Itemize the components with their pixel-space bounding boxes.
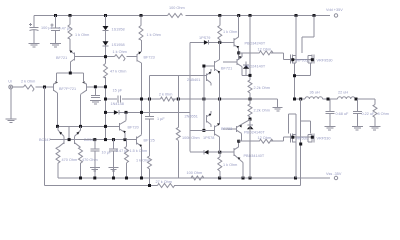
node dots VAS column: [202, 65, 205, 68]
svg-text:VRF530: VRF530: [317, 136, 331, 140]
node dot Q4 base-collector: [237, 140, 240, 143]
svg-text:1S1958: 1S1958: [112, 43, 125, 47]
svg-text:12 Ohm: 12 Ohm: [258, 136, 272, 140]
ground (mid bus drop x277.7): [273, 107, 283, 111]
wire base bus y139.6: [50, 139, 136, 141]
capacitor (base bypass x95.4): [91, 88, 100, 98]
wire bottom rail Vss y178: [58, 177, 330, 179]
resistor 1 k Ohm (x219.8 from rail): [219, 16, 221, 43]
svg-text:BF725: BF725: [144, 139, 155, 143]
wire right base of pair1: [87, 86, 106, 88]
capacitor 0.22 uF (output): [353, 99, 362, 126]
diode (B-E, lower, apex up): [247, 124, 253, 126]
svg-text:1PS79: 1PS79: [199, 36, 210, 40]
resistor 47 k Ohm (x105.5): [105, 58, 107, 140]
svg-text:2N5551: 2N5551: [185, 115, 198, 119]
resistor 12 Ohm (upper): [259, 51, 273, 55]
resistor 100k Ohm (x178.3 to rail): [177, 99, 179, 127]
node dot (bias node lower): [218, 151, 221, 154]
svg-text:BF723: BF723: [144, 56, 155, 60]
node dots on top rail: [54, 14, 57, 17]
wire feedback y185.5: [45, 87, 301, 186]
node dot input base: [43, 86, 46, 89]
svg-text:8 Ohm: 8 Ohm: [378, 112, 389, 116]
wire output rail y99: [295, 98, 376, 100]
node dots bottom rail: [79, 177, 82, 180]
wire emitter tie (diff pair 1): [57, 72, 84, 82]
node dot Q3 emitter: [237, 51, 240, 54]
resistor 2 k Ohm (mid bus): [161, 97, 175, 101]
wire bias chain x250: [249, 16, 251, 81]
transistor BC547 (right, mirror): [75, 126, 81, 144]
transistor Q3 PBD34240T: [233, 38, 235, 46]
wire upper gate drive y52.9: [239, 53, 312, 60]
polarity mark C2: [51, 24, 54, 27]
ground (under C1): [29, 43, 40, 47]
wire collector bus y126.4: [58, 125, 120, 127]
wire lower diode branch y152.2: [190, 151, 234, 153]
node dots output rail: [293, 98, 296, 101]
node dot feedback: [148, 184, 151, 187]
terminal Vss -35V: [334, 176, 337, 179]
svg-text:1S1958: 1S1958: [112, 28, 125, 32]
wire upper diode branch y42.4: [190, 42, 234, 151]
wire top supply rail Vdd: [34, 15, 330, 17]
resistor 1.5 k Ohm (x126.5): [126, 140, 128, 147]
node dots y126.4: [56, 125, 59, 128]
svg-text:0.22 uF: 0.22 uF: [362, 112, 376, 116]
svg-text:22 uH: 22 uH: [338, 91, 348, 95]
svg-text:PBD34240T: PBD34240T: [245, 42, 266, 46]
resistor 1 k Ohm (x149.5, to feedback): [148, 156, 152, 169]
inductor 22 uH: [338, 97, 356, 99]
svg-text:1PS78: 1PS78: [203, 136, 214, 140]
svg-text:1.5 k Ohm: 1.5 k Ohm: [130, 149, 148, 153]
transistor QA lower (VAS): [190, 125, 215, 135]
resistor R 1k Ohm (x70): [69, 16, 71, 52]
svg-text:2 k Ohm: 2 k Ohm: [21, 80, 35, 84]
inductor 36 uH: [305, 97, 323, 99]
diode D2 1S1958: [103, 41, 109, 45]
node dot (diode chain / base bus): [104, 55, 107, 58]
diode 1N4148 (series in bus2): [114, 110, 119, 115]
node dot (cap tap): [94, 85, 97, 88]
resistor 1 k Ohm (x219.8 to rail): [219, 152, 221, 157]
svg-text:15 pF: 15 pF: [113, 89, 123, 93]
svg-text:BF721: BF721: [221, 66, 232, 70]
wire lower MOSFET to rail: [295, 114, 297, 178]
resistor 100 Ohm (top rail): [168, 14, 183, 18]
transistor BF725: [136, 137, 138, 145]
bus2 y112.4 wire: [106, 111, 191, 113]
capacitor 1 uF: [145, 99, 154, 156]
transistor pair BF7F*721 (input PNP pair): [55, 81, 58, 84]
resistor 100 Ohm (bottom rail): [191, 176, 204, 180]
node dot (47k junction): [104, 85, 107, 88]
svg-text:PBD24140T: PBD24140T: [245, 65, 266, 69]
resistor 1 k Ohm (horizontal, base bus): [115, 55, 126, 61]
resistor 2.2k Ohm (upper): [248, 80, 252, 93]
resistor 27 k Ohm (feedback): [158, 184, 175, 188]
node dots gates lower: [291, 136, 294, 139]
wire Q1 base bus y56.6: [75, 56, 114, 58]
svg-text:Vss -35V: Vss -35V: [326, 172, 342, 176]
svg-text:47 k Ohm: 47 k Ohm: [110, 70, 126, 74]
svg-text:2N5401: 2N5401: [187, 78, 200, 82]
transistor Q5 (upper bias driver): [223, 59, 237, 65]
svg-text:1 k Ohm: 1 k Ohm: [223, 163, 237, 167]
resistor 470 Ohm (left): [56, 147, 60, 163]
diode D1 1S1958: [105, 16, 107, 27]
svg-text:2.2k Ohm: 2.2k Ohm: [254, 108, 270, 112]
capacitor 0.68 uF (output): [326, 99, 335, 126]
svg-text:470 Ohm: 470 Ohm: [62, 158, 78, 162]
transistor BC547 (left, mirror): [58, 126, 64, 144]
transistor Q2 BF723 (PNP): [137, 51, 141, 54]
svg-text:12 Ohm: 12 Ohm: [258, 47, 272, 51]
terminal input Ui: [9, 85, 13, 89]
MOSFET M1 IRF9530 (P, upper left): [290, 55, 296, 64]
wire lower gate jog: [289, 114, 296, 134]
wire upper source tie: [295, 63, 311, 99]
svg-text:0.68 uF: 0.68 uF: [336, 112, 350, 116]
transistor QB upper 2N5401: [205, 74, 207, 81]
svg-text:27 k Ohm: 27 k Ohm: [156, 180, 172, 184]
MOSFET M4 VRF530 (N, lower right): [308, 134, 314, 143]
svg-text:PBD34140T: PBD34140T: [244, 154, 265, 158]
wire input to base: [13, 86, 53, 88]
wire QB upper base feed y75.5: [150, 76, 207, 100]
node dot tail: [69, 72, 72, 75]
terminal Vdd +35V: [334, 14, 337, 17]
svg-text:1 k Ohm: 1 k Ohm: [113, 50, 127, 54]
transistor Q6 (lower bias driver): [223, 126, 237, 132]
svg-text:PBD24140T: PBD24140T: [244, 131, 265, 135]
svg-text:BF721: BF721: [56, 56, 67, 60]
svg-text:36 uH: 36 uH: [310, 91, 320, 95]
node dot (bias node upper): [218, 41, 221, 44]
svg-text:1 µF: 1 µF: [157, 117, 165, 121]
node dot 2.2k top: [249, 74, 252, 77]
capacitor C1 100uF electrolytic: [30, 16, 39, 43]
node dots on mid bus: [104, 98, 107, 101]
wire lower gate drive y141.2: [239, 137, 312, 141]
transistor QB lower 2N5551: [205, 115, 207, 122]
ground (under base bypass cap): [90, 100, 101, 104]
svg-text:Vdd +35V: Vdd +35V: [326, 8, 343, 12]
wire mid bus y99: [106, 99, 278, 107]
node dot output column: [299, 143, 302, 146]
diode 1PS78: [204, 150, 208, 155]
svg-text:BF7F*721: BF7F*721: [59, 87, 76, 91]
capacitor 0.47 uF (x113.5): [109, 140, 118, 178]
wire VAS column x203.9: [203, 66, 205, 130]
svg-text:1 k Ohm: 1 k Ohm: [223, 30, 237, 34]
resistor 12 Ohm (lower): [259, 139, 273, 143]
capacitor 10 uF (x94.8): [90, 140, 99, 178]
resistor 2 k Ohm (input): [24, 85, 35, 91]
svg-text:1 k Ohm: 1 k Ohm: [75, 33, 89, 37]
transistor Q4 PBD34140T: [233, 148, 235, 156]
svg-text:1N4148: 1N4148: [111, 102, 124, 106]
capacitor C2 0.47uF: [51, 16, 60, 43]
resistor 2.2k Ohm (lower): [249, 99, 251, 104]
wire bias chain to rail x250: [249, 119, 251, 178]
wire upper MOSFET feeds: [296, 16, 314, 56]
capacitor 15 pF (series in mid bus): [118, 96, 121, 103]
svg-text:100k Ohm: 100k Ohm: [182, 136, 200, 140]
node dot 2.2k bottom: [249, 118, 252, 121]
diode 1PS79: [204, 40, 208, 45]
svg-text:BF720: BF720: [128, 126, 139, 130]
MOSFET M3 IRF530 (N, lower left): [290, 134, 296, 143]
svg-text:BF723: BF723: [221, 127, 232, 131]
node dots base bus: [68, 138, 71, 141]
node dots bus2: [104, 111, 107, 114]
transistor BF720: [119, 123, 121, 131]
ground (input jack): [6, 89, 17, 122]
ground (under C2): [50, 43, 61, 47]
svg-text:2.2k Ohm: 2.2k Ohm: [254, 86, 270, 90]
wire diode tie x69.1: [68, 126, 70, 139]
wire lower drain tie: [301, 121, 311, 134]
svg-text:2 k 0hm: 2 k 0hm: [159, 93, 173, 97]
resistor 8 Ohm (load): [374, 99, 376, 105]
MOSFET M2 VRF9530 (P, upper right): [308, 55, 314, 64]
svg-text:IRF530: IRF530: [296, 136, 308, 140]
polarity mark C1: [29, 23, 32, 26]
svg-text:100 Ohm: 100 Ohm: [187, 171, 203, 175]
transistor Q1 BF721 (PNP): [70, 51, 75, 54]
svg-text:Ui: Ui: [8, 80, 12, 84]
resistor R 1k Ohm (x141): [140, 16, 142, 52]
svg-text:100 Ohm: 100 Ohm: [169, 6, 185, 10]
transistor QA upper (VAS): [204, 61, 215, 71]
node dots gates upper: [291, 58, 294, 61]
svg-text:VRF9530: VRF9530: [317, 58, 333, 62]
svg-text:1 k Ohm: 1 k Ohm: [147, 33, 161, 37]
svg-text:1 k Ohm: 1 k Ohm: [136, 159, 150, 163]
resistor 470 Ohm (right): [79, 147, 83, 163]
diode (B-E, upper, apex up): [243, 62, 249, 76]
wire output column x300.7: [300, 99, 302, 186]
